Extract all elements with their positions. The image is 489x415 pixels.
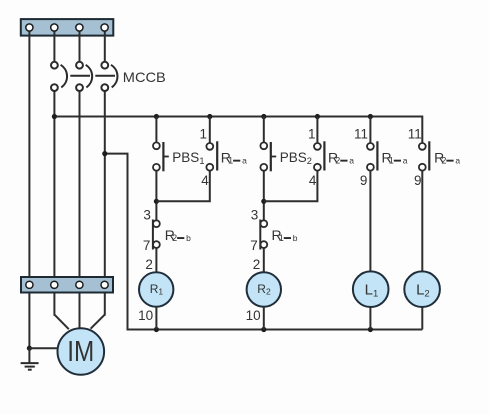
wire phase line 1 (x=29.2, terminal to ground node): [28, 28, 30, 348]
lamp L2: [404, 271, 440, 307]
wire col3 rail to PBS2: [263, 117, 265, 143]
junction bottom rail col3: [261, 327, 266, 332]
wire ground node to motor frame: [29, 347, 58, 349]
junction return rail at phase 4: [102, 151, 107, 156]
label R2-a (col4): [328, 149, 354, 165]
wire col1 coil R1 to bottom rail: [155, 307, 157, 330]
relay coil R2: [247, 272, 281, 306]
wire col1 PBS1 to R2-b: [155, 171, 157, 221]
junction top rail col5: [368, 114, 373, 119]
MCCB mechanical link dashes: [70, 75, 115, 77]
svg-text:11: 11: [354, 127, 368, 142]
svg-text:MCCB: MCCB: [123, 69, 166, 85]
label R2-b (col1): [165, 227, 191, 243]
wire col5 lamp L1 to bottom rail: [369, 307, 371, 330]
MCCB pole 1: [51, 62, 67, 91]
wire control return rail (phase 4 tap, left edge and bottom): [105, 154, 423, 330]
wire phase line 3 lower (MCCB pole 2 to motor): [79, 92, 81, 330]
wire col6 contact to lamp L2: [421, 171, 423, 272]
svg-text:b: b: [186, 233, 191, 243]
contact R1-a (holding, col2): [206, 141, 217, 170]
svg-text:a: a: [403, 156, 408, 166]
junction top rail col1: [154, 114, 159, 119]
wire col5 contact to lamp L1: [369, 171, 371, 272]
TB2 terminal circles: [26, 281, 108, 288]
label PBS1: [172, 150, 204, 166]
junction top rail at phase 2: [52, 114, 57, 119]
svg-text:1: 1: [279, 233, 284, 243]
wire control top rail: [54, 117, 422, 144]
svg-text:a: a: [455, 156, 460, 166]
svg-text:1: 1: [199, 127, 207, 142]
svg-text:1: 1: [389, 156, 394, 166]
wire phase line 2 upper (terminal to MCCB pole 1): [53, 28, 55, 61]
svg-text:a: a: [242, 156, 247, 166]
svg-text:11: 11: [408, 127, 422, 142]
junction top rail col3: [261, 114, 266, 119]
svg-text:3: 3: [251, 207, 259, 222]
push button PBS2: [260, 142, 276, 171]
junction top rail col4: [315, 114, 320, 119]
junction bottom rail col1: [154, 327, 159, 332]
wire col6 lamp L2 to bottom rail: [421, 307, 423, 330]
svg-text:b: b: [293, 233, 298, 243]
svg-text:2: 2: [145, 257, 153, 272]
label R1-a (col2): [221, 149, 247, 165]
junction top rail col2: [207, 114, 212, 119]
wire col5 rail to contact: [369, 117, 371, 144]
junction col3 node 3/4 link: [261, 199, 266, 204]
TB1 terminal circles: [26, 24, 108, 31]
label R1-a (col5): [382, 149, 408, 165]
svg-text:7: 7: [250, 238, 258, 253]
contact R1-a (lamp circuit, col5): [367, 141, 377, 170]
svg-text:2: 2: [335, 156, 340, 166]
svg-text:PBS1: PBS1: [172, 150, 204, 166]
svg-text:7: 7: [143, 238, 151, 253]
wire ground stem: [28, 348, 30, 363]
wire col1 rail to PBS1: [155, 117, 157, 143]
terminal block TB2 (lower): [21, 277, 113, 293]
svg-text:1: 1: [228, 156, 233, 166]
contact R2-b (col1): [153, 220, 160, 250]
svg-text:9: 9: [360, 173, 368, 188]
relay coil R1: [139, 272, 173, 306]
label MCCB: [123, 69, 166, 85]
terminal block TB1 (top): [21, 19, 114, 35]
wire phase line 4 lower (MCCB pole 3 to motor): [91, 92, 105, 329]
svg-text:3: 3: [143, 207, 151, 222]
wire col3 R1-b to coil R2: [263, 248, 265, 273]
ground symbol: [21, 363, 39, 370]
wire R1-a branch (col2 down and across): [156, 117, 209, 202]
wire phase line 4 upper (terminal to MCCB pole 3): [104, 28, 106, 61]
contact R2-a (holding, col4): [314, 141, 324, 170]
junction col1 node 3/4 link: [154, 199, 159, 204]
contact R1-b (col3): [260, 220, 267, 250]
motor IM: [58, 328, 105, 375]
MCCB pole 3: [101, 62, 117, 91]
label R1-b (col3): [272, 227, 298, 243]
wire R2-a branch (col4 down and across): [264, 117, 318, 202]
junction bottom rail col5: [368, 327, 373, 332]
svg-text:4: 4: [201, 173, 209, 188]
svg-text:4: 4: [309, 173, 317, 188]
svg-text:a: a: [349, 156, 354, 166]
wire col3 coil R2 to bottom rail: [263, 307, 265, 330]
svg-text:2: 2: [172, 233, 177, 243]
junction ground node: [27, 346, 32, 351]
svg-text:2: 2: [253, 257, 261, 272]
svg-text:10: 10: [246, 308, 261, 323]
wire col3 PBS2 to R1-b: [263, 171, 265, 221]
wire col1 R2-b to coil R1: [155, 248, 157, 273]
label PBS2: [280, 150, 312, 166]
svg-text:1: 1: [308, 127, 316, 142]
svg-text:10: 10: [138, 308, 153, 323]
wire phase line 3 upper (terminal to MCCB pole 2): [79, 28, 81, 61]
svg-text:IM: IM: [67, 336, 94, 368]
contact R2-a (lamp circuit, col6): [419, 141, 429, 170]
push button PBS1: [153, 142, 169, 171]
label R2-a (col6): [434, 149, 460, 165]
lamp L1: [353, 271, 389, 307]
wire phase line 2 lower (MCCB pole 1 to lower block): [54, 92, 68, 330]
svg-text:9: 9: [414, 173, 422, 188]
MCCB pole 2: [76, 62, 92, 91]
svg-text:2: 2: [441, 156, 446, 166]
svg-text:PBS2: PBS2: [280, 150, 312, 166]
